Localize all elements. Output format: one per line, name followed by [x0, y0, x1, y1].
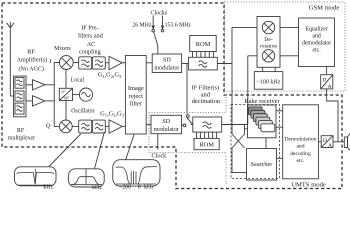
svg-text:modulator: modulator [154, 66, 179, 72]
equalizer box [299, 18, 335, 67]
de-rotation mixer I [262, 21, 274, 33]
svg-text:D: D [322, 77, 326, 83]
ROM 1 box [190, 36, 217, 52]
wire equalizer to GSM D/A [326, 67, 328, 75]
wire amp1 to I node [45, 84, 54, 86]
label IF Filter(s) and decimation [191, 85, 221, 105]
svg-text:Image: Image [128, 85, 144, 92]
svg-text:Local: Local [71, 78, 85, 84]
label RF Amplifier(s) (No AGC) [17, 49, 47, 73]
IF pre-filter Q2 [92, 120, 105, 133]
label IF Pre-filters and AC coupling [78, 24, 104, 55]
GSM mode dotted box [225, 2, 346, 91]
svg-text:Mixers: Mixers [54, 46, 71, 52]
svg-text:0: 0 [138, 184, 141, 190]
demodulation and decoding box [283, 105, 319, 179]
callout 1 notch response [15, 167, 57, 186]
wire de-rotation I to equalizer [280, 26, 299, 28]
wire phase splitter to mixer I [65, 69, 67, 88]
wire multiplexer to amp1 [26, 84, 33, 86]
svg-text:Amplifier(s): Amplifier(s) [17, 56, 47, 63]
de-rotation mixer Q [262, 50, 274, 62]
svg-text:kHz: kHz [144, 184, 154, 190]
rake receiver dashed box [231, 105, 280, 179]
GSM D/A box [321, 75, 333, 89]
RF multiplexer box [14, 76, 27, 117]
wire SD modulator 2 to switch [182, 124, 184, 126]
svg-text:RF: RF [27, 49, 35, 56]
chip boundary dashed outline [2, 3, 342, 189]
IF pre-filter I2 [92, 57, 105, 69]
clock switch lever [154, 32, 158, 45]
svg-text:G1,G2,G3: G1,G2,G3 [100, 110, 124, 117]
mode switch lever [187, 117, 193, 124]
wire correlators to demodulation (upper) [276, 110, 283, 112]
wire mixer I to IF filters [73, 62, 79, 64]
svg-text:etc.: etc. [312, 47, 321, 53]
svg-text:Searcher: Searcher [251, 161, 273, 168]
vertical bus to mixers [54, 63, 59, 127]
wire crossing to searcher [232, 148, 247, 173]
RF amplifier A2 [33, 96, 45, 106]
svg-text:Clocks: Clocks [150, 10, 167, 16]
svg-text:SD: SD [162, 119, 170, 125]
wire amp Q to image reject filter [122, 125, 125, 127]
wire amp I to image reject filter [122, 62, 125, 64]
RF amplifier A1 [33, 80, 45, 90]
correlator stack cards [248, 107, 274, 132]
wire amp2 to Q node [45, 100, 54, 102]
svg-text:modulator: modulator [154, 127, 179, 133]
svg-text:reject: reject [129, 93, 143, 100]
wire antenna to RF multiplexer [10, 95, 13, 97]
svg-text:(No AGC): (No AGC) [19, 66, 45, 73]
RF multiplexer filter 2 [15, 91, 24, 101]
svg-text:kHz: kHz [43, 185, 53, 191]
callout pointer to AC coupling filter [49, 134, 81, 167]
svg-text:Clock: Clock [152, 152, 168, 159]
ROM 1 bus comb [193, 52, 214, 58]
svg-text:etc.: etc. [297, 158, 306, 164]
SD modulator 1 box [152, 54, 181, 73]
svg-text:IF Pre-: IF Pre- [81, 24, 98, 31]
image reject filter box [125, 56, 146, 135]
svg-text:multiplexer: multiplexer [8, 135, 35, 141]
clock switch contact 1 [152, 29, 155, 32]
svg-text:G1,G2,G3: G1,G2,G3 [98, 72, 122, 79]
-100 kHz box [254, 72, 282, 90]
clock input 153.6 MHz arrow [162, 16, 164, 29]
svg-text:rotation: rotation [260, 44, 278, 50]
wire oscillator to phase splitter [73, 94, 80, 96]
svg-text:−200: −200 [119, 184, 131, 190]
wire IF filters I to amp [105, 62, 109, 64]
RF multiplexer filter 3 [15, 103, 24, 114]
svg-text:Rake receiver: Rake receiver [244, 98, 280, 105]
svg-text:90°: 90° [64, 95, 70, 100]
clock switch contact 2 [161, 29, 164, 32]
wire image reject filter to SD modulator 1 [146, 62, 152, 64]
wire de-rotation Q to equalizer [280, 55, 299, 57]
callout 3 band response [113, 160, 160, 186]
callout pointer to image reject filter [126, 134, 135, 160]
wire IF filter 2 to de-rotation and rake [222, 56, 257, 134]
mode switch contact from SD1 [187, 115, 190, 118]
wire GSM D/A to audio line [327, 89, 338, 142]
svg-text:kHz: kHz [92, 185, 102, 191]
correlator bank box [248, 105, 277, 138]
svg-text:Q: Q [46, 123, 51, 130]
label -200 0 kHz callout 3 [119, 184, 154, 190]
svg-text:ROM: ROM [199, 142, 214, 149]
phase splitter 0/90 box [59, 88, 72, 100]
svg-text:A: A [328, 143, 332, 149]
svg-text:filter: filter [130, 101, 143, 108]
mixer Q [59, 120, 72, 133]
IF decimation filter 1 [189, 57, 218, 70]
svg-text:filters and: filters and [78, 33, 104, 40]
ROM 2 bus comb [197, 132, 217, 138]
UMTS mode dotted boundary [149, 97, 226, 186]
searcher box [247, 149, 277, 181]
label Demodulation and decoding etc. [284, 136, 316, 164]
I/Q crossing wires to rake [232, 134, 245, 148]
svg-text:ROM: ROM [196, 41, 211, 48]
label D/A GSM [322, 77, 331, 90]
UMTS D/A box [321, 136, 333, 148]
IF amplifier Q [109, 120, 122, 134]
antenna [7, 22, 14, 96]
wire IF filter 1 to de-rotation and rake [217, 27, 257, 134]
callout pointer to lowpass filter [95, 132, 105, 169]
svg-text:demodulator: demodulator [302, 40, 331, 46]
wire searcher to demodulation [277, 157, 283, 159]
wire SD1 output down to mode switch [186, 64, 188, 115]
wire mixer Q to IF filters [72, 125, 79, 127]
IF pre-filter Q1 [79, 120, 92, 133]
wire image reject filter to SD modulator 2 [146, 124, 151, 126]
label De-rotation [260, 37, 278, 49]
local oscillator [79, 88, 92, 101]
svg-text:GSM mode: GSM mode [309, 4, 340, 11]
label Equalizer and demodulator etc. [302, 26, 331, 53]
wire crossing to correlators [245, 128, 248, 130]
svg-text:0°: 0° [61, 90, 65, 95]
mode switch contact from SD2 [183, 124, 186, 127]
svg-text:Equalizer: Equalizer [305, 26, 327, 32]
svg-text:coupling: coupling [79, 49, 101, 56]
wire IF filters Q to amp [105, 125, 109, 127]
wires de-rotation to -100 kHz [263, 67, 276, 71]
clock input 26 MHz arrow [152, 16, 154, 29]
wire SD modulator 1 to IF filter 1 [182, 63, 189, 65]
svg-text:Oscillator: Oscillator [71, 108, 94, 114]
svg-text:Demodulation: Demodulation [284, 136, 316, 142]
svg-text:decimation: decimation [192, 98, 221, 105]
svg-text:26 MHz: 26 MHz [132, 23, 152, 29]
speaker [344, 133, 350, 152]
wire demodulation to UMTS D/A [318, 141, 321, 143]
label D/A UMTS [323, 138, 332, 149]
wire correlators to demodulation (lower) [276, 126, 283, 128]
wire phase splitter to mixer Q [65, 101, 67, 121]
svg-text:SD: SD [163, 58, 171, 64]
IF decimation filter 2 [193, 117, 222, 132]
svg-text:decoding: decoding [290, 151, 311, 157]
SD modulator 2 box [151, 115, 182, 133]
wire SD modulator 2 clock stub [157, 134, 159, 150]
label SD modulator 2 [154, 119, 179, 133]
svg-text:UMTS mode: UMTS mode [291, 181, 326, 188]
de-rotation box [257, 17, 280, 68]
svg-text:AC: AC [87, 41, 96, 48]
svg-text:and: and [312, 33, 320, 39]
wire correlators to searcher [265, 138, 267, 149]
svg-text:153.6 MHz: 153.6 MHz [165, 23, 192, 29]
wire switch to IF filter 2 [191, 124, 193, 126]
label RF multiplexer [8, 128, 35, 142]
label SD modulator 1 [154, 58, 179, 72]
wire clock to SD modulator 1 [157, 46, 159, 55]
svg-text:A: A [328, 84, 332, 90]
svg-text:RF: RF [17, 128, 25, 134]
svg-text:−100 kHz: −100 kHz [257, 79, 281, 85]
RF multiplexer filter 1 [15, 78, 24, 89]
IF pre-filter I1 [79, 57, 92, 69]
IF amplifier I [109, 56, 122, 70]
svg-text:and: and [296, 144, 304, 150]
label Image reject filter [128, 85, 144, 108]
mixer I [59, 56, 73, 70]
wire UMTS D/A to speaker [333, 141, 344, 143]
ROM 2 box [194, 138, 219, 149]
wire multiplexer to amp2 [26, 100, 33, 102]
svg-text:D: D [323, 138, 327, 144]
svg-text:De-: De- [264, 37, 273, 43]
callout 2 lowpass response [69, 169, 105, 187]
